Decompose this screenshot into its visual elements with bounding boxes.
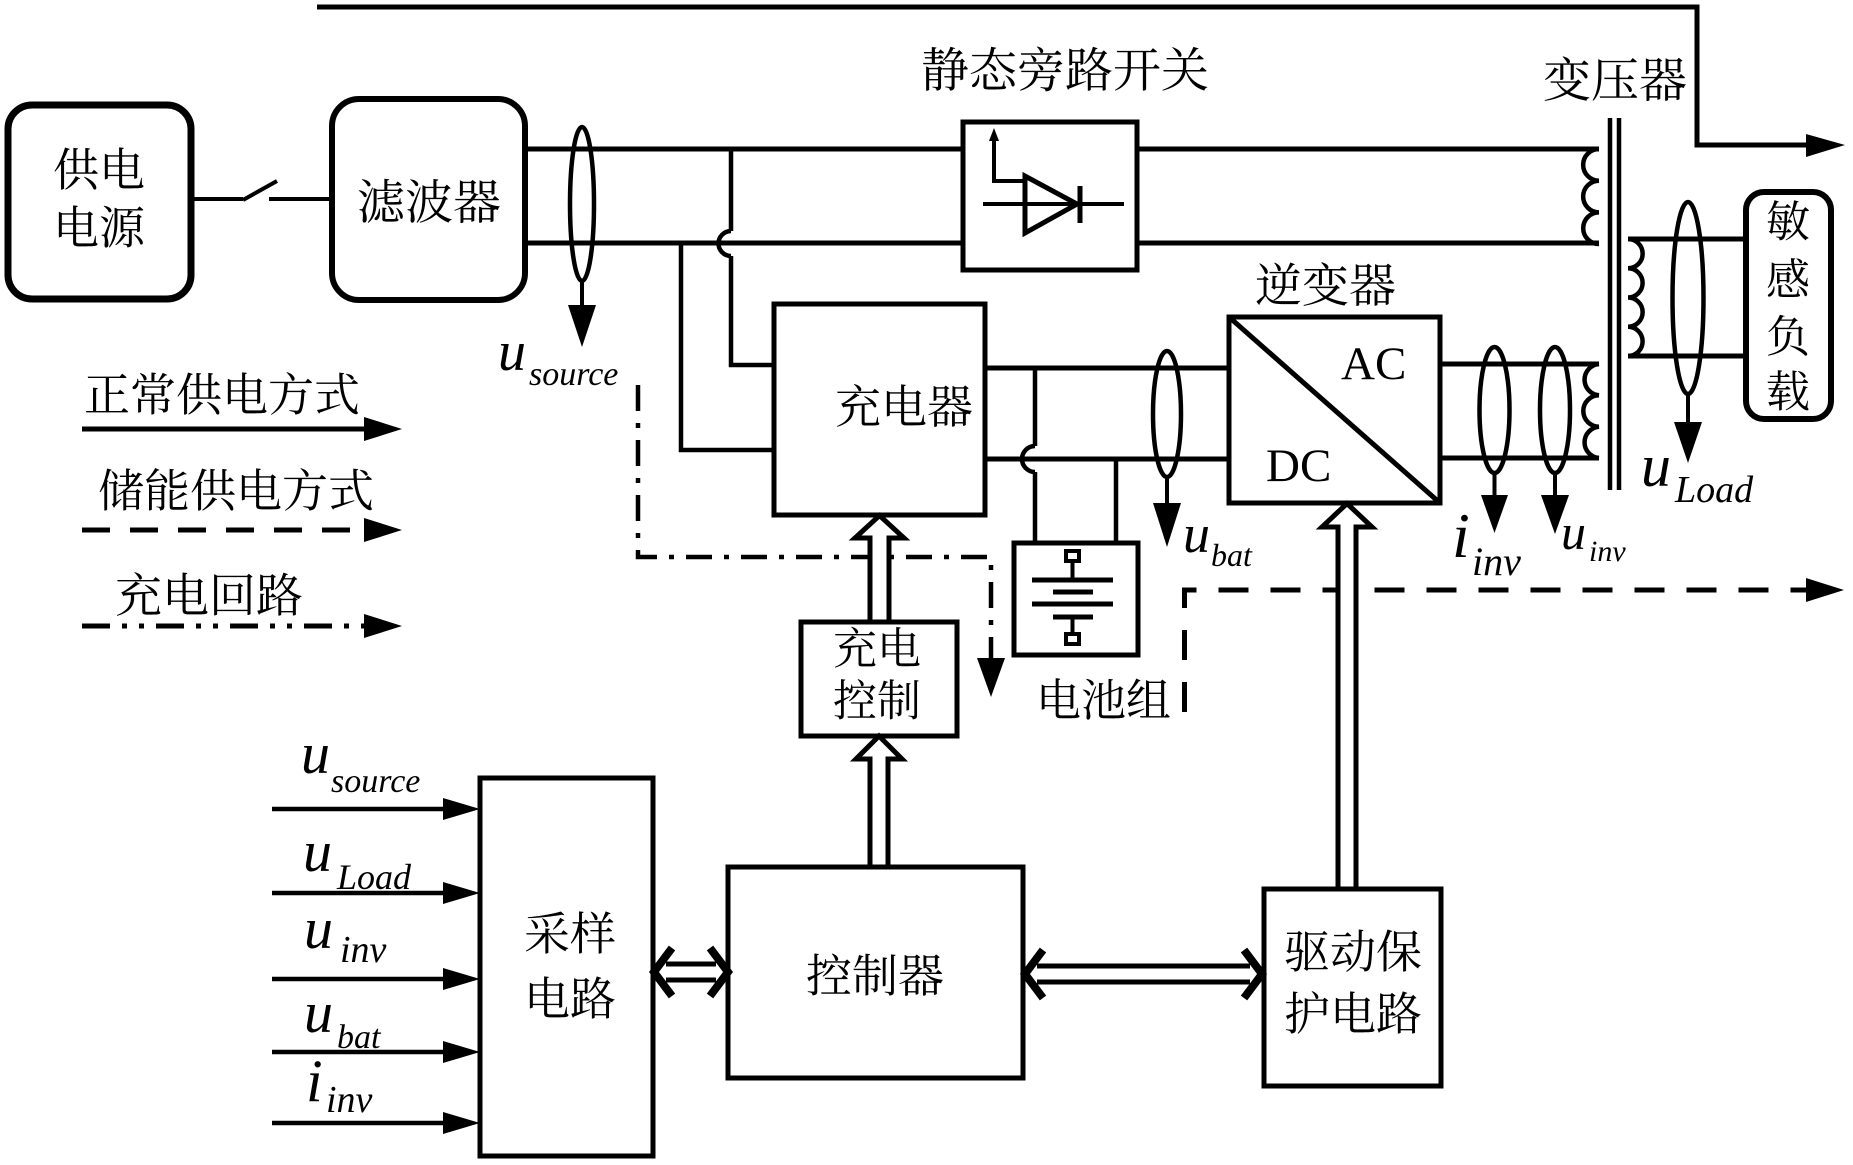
- svg-text:u: u: [303, 819, 332, 884]
- arrow: u_Load sense arrow down: [1686, 394, 1690, 424]
- block: controller 控制器: [728, 867, 1023, 1078]
- wire: charging loop dash-dot path from u_source node to battery area: [638, 385, 991, 660]
- wire: DC link bottom (charger to inverter): [985, 457, 1229, 462]
- arrow: u_inv sense arrow down: [1553, 473, 1557, 497]
- svg-text:u: u: [1641, 433, 1671, 499]
- block: drive protection circuit 驱动保护电路: [1264, 889, 1441, 1086]
- wire: secondary top to load: [1628, 237, 1746, 242]
- arrow: drive protection to inverter (hollow up arrow): [1322, 504, 1372, 890]
- label: transformer 变压器: [1545, 56, 1686, 101]
- svg-text:bat: bat: [1211, 537, 1253, 573]
- svg-text:u: u: [1561, 504, 1586, 560]
- wire: bottom AC bus (filter to bypass switch): [525, 241, 963, 246]
- block: charge control 充电控制: [801, 622, 957, 736]
- sensor: u_Load measuring ellipse: [1673, 202, 1704, 394]
- sensor: u_inv measuring ellipse: [1540, 347, 1570, 473]
- transformer: core (double bar): [1608, 118, 1613, 490]
- svg-text:u: u: [1183, 504, 1210, 564]
- arrow: charge control to charger (hollow up arrow): [855, 516, 904, 623]
- wire: inverter output bottom to transformer: [1440, 456, 1599, 461]
- svg-text:source: source: [529, 356, 618, 393]
- block: power source 供电电源: [8, 105, 191, 299]
- arrow: i_inv into sampling circuit: [272, 1121, 443, 1126]
- arrow: controller to charge control (hollow up arrow): [856, 736, 902, 867]
- thyristor: SCR symbol inside bypass switch: [983, 202, 1124, 206]
- block: inverter AC/DC: [1229, 317, 1440, 503]
- svg-text:inv: inv: [326, 1079, 373, 1121]
- legend arrow: solid (normal supply): [82, 427, 364, 432]
- svg-text:u: u: [304, 980, 333, 1045]
- block: sensitive load 敏感负载: [1746, 192, 1831, 419]
- arrow: controller <-> drive protection (hollow double arrow): [1025, 950, 1043, 998]
- switch: mains disconnect between source and filter: [191, 197, 243, 201]
- legend text: charging loop 充电回路: [117, 572, 302, 616]
- wire: tap from bottom bus down to charger input: [681, 243, 774, 450]
- label: battery pack 电池组: [1042, 678, 1170, 719]
- arrow: u_source sense arrow down: [580, 281, 584, 308]
- block: battery pack box 电池组: [1014, 543, 1138, 655]
- battery: cell stack symbol: [1066, 551, 1079, 561]
- label: static bypass switch 静态旁路开关: [923, 47, 1207, 92]
- arrow: u_inv into sampling circuit: [272, 977, 443, 982]
- arrow: u_source into sampling circuit: [272, 807, 443, 812]
- arrow: u_bat sense arrow down: [1165, 477, 1169, 505]
- label: inverter 逆变器: [1256, 262, 1394, 306]
- svg-text:Load: Load: [1674, 469, 1754, 511]
- arrow: u_bat into sampling circuit: [272, 1050, 443, 1055]
- svg-text:inv: inv: [340, 929, 387, 971]
- svg-text:AC: AC: [1341, 338, 1406, 390]
- block: filter 滤波器: [332, 99, 525, 300]
- block: sampling circuit 采样电路: [480, 778, 653, 1156]
- wire: DC link top (charger to inverter): [985, 366, 1229, 371]
- wire: battery negative lead: [1114, 459, 1119, 543]
- legend text: normal supply mode 正常供电方式: [86, 372, 358, 415]
- svg-text:DC: DC: [1266, 440, 1331, 492]
- arrow: sampling circuit <-> controller (hollow double arrow): [654, 948, 672, 996]
- svg-text:i: i: [306, 1048, 323, 1114]
- wire: inverter output top to transformer: [1440, 362, 1599, 367]
- sensor: u_bat measuring ellipse: [1153, 351, 1181, 477]
- svg-text:u: u: [301, 721, 330, 786]
- wire: tap from top bus down to charger input (hop over bottom bus): [729, 149, 734, 231]
- legend arrow: dashed (stored-energy supply): [82, 528, 364, 533]
- svg-text:source: source: [331, 763, 420, 800]
- wire: secondary bottom to load: [1628, 354, 1746, 359]
- sensor: u_source measuring ellipse: [570, 127, 594, 281]
- svg-text:inv: inv: [1472, 539, 1521, 584]
- arrow: u_Load into sampling circuit: [272, 891, 443, 896]
- wire: top AC bus (bypass switch to transformer): [1137, 147, 1599, 152]
- block: static bypass switch box: [963, 122, 1137, 270]
- transformer: primary winding (top left): [1583, 149, 1599, 244]
- svg-text:i: i: [1452, 500, 1470, 571]
- legend text: stored-energy supply mode 储能供电方式: [100, 468, 372, 511]
- svg-text:u: u: [498, 321, 526, 383]
- arrow: i_inv sense arrow down: [1493, 473, 1497, 497]
- wire: battery positive lead (hop over DC bottom wire): [1033, 368, 1038, 446]
- sensor: i_inv measuring ellipse: [1480, 347, 1510, 473]
- block: charger 充电器: [774, 304, 985, 515]
- wire: top AC bus (filter to bypass switch): [525, 147, 963, 152]
- svg-text:u: u: [304, 896, 333, 961]
- wire: bottom AC bus (bypass switch to transformer): [1137, 241, 1599, 246]
- svg-text:inv: inv: [1589, 535, 1626, 568]
- transformer: secondary winding (right): [1628, 239, 1643, 356]
- transformer: inverter-side winding (bottom left): [1583, 364, 1599, 458]
- legend arrow: dash-dot-dot (charging loop): [82, 624, 364, 629]
- wire: bypass output top line to load arrow: [317, 7, 1806, 145]
- wire: stored-energy supply dashed path (battery to output arrow): [1185, 590, 1807, 712]
